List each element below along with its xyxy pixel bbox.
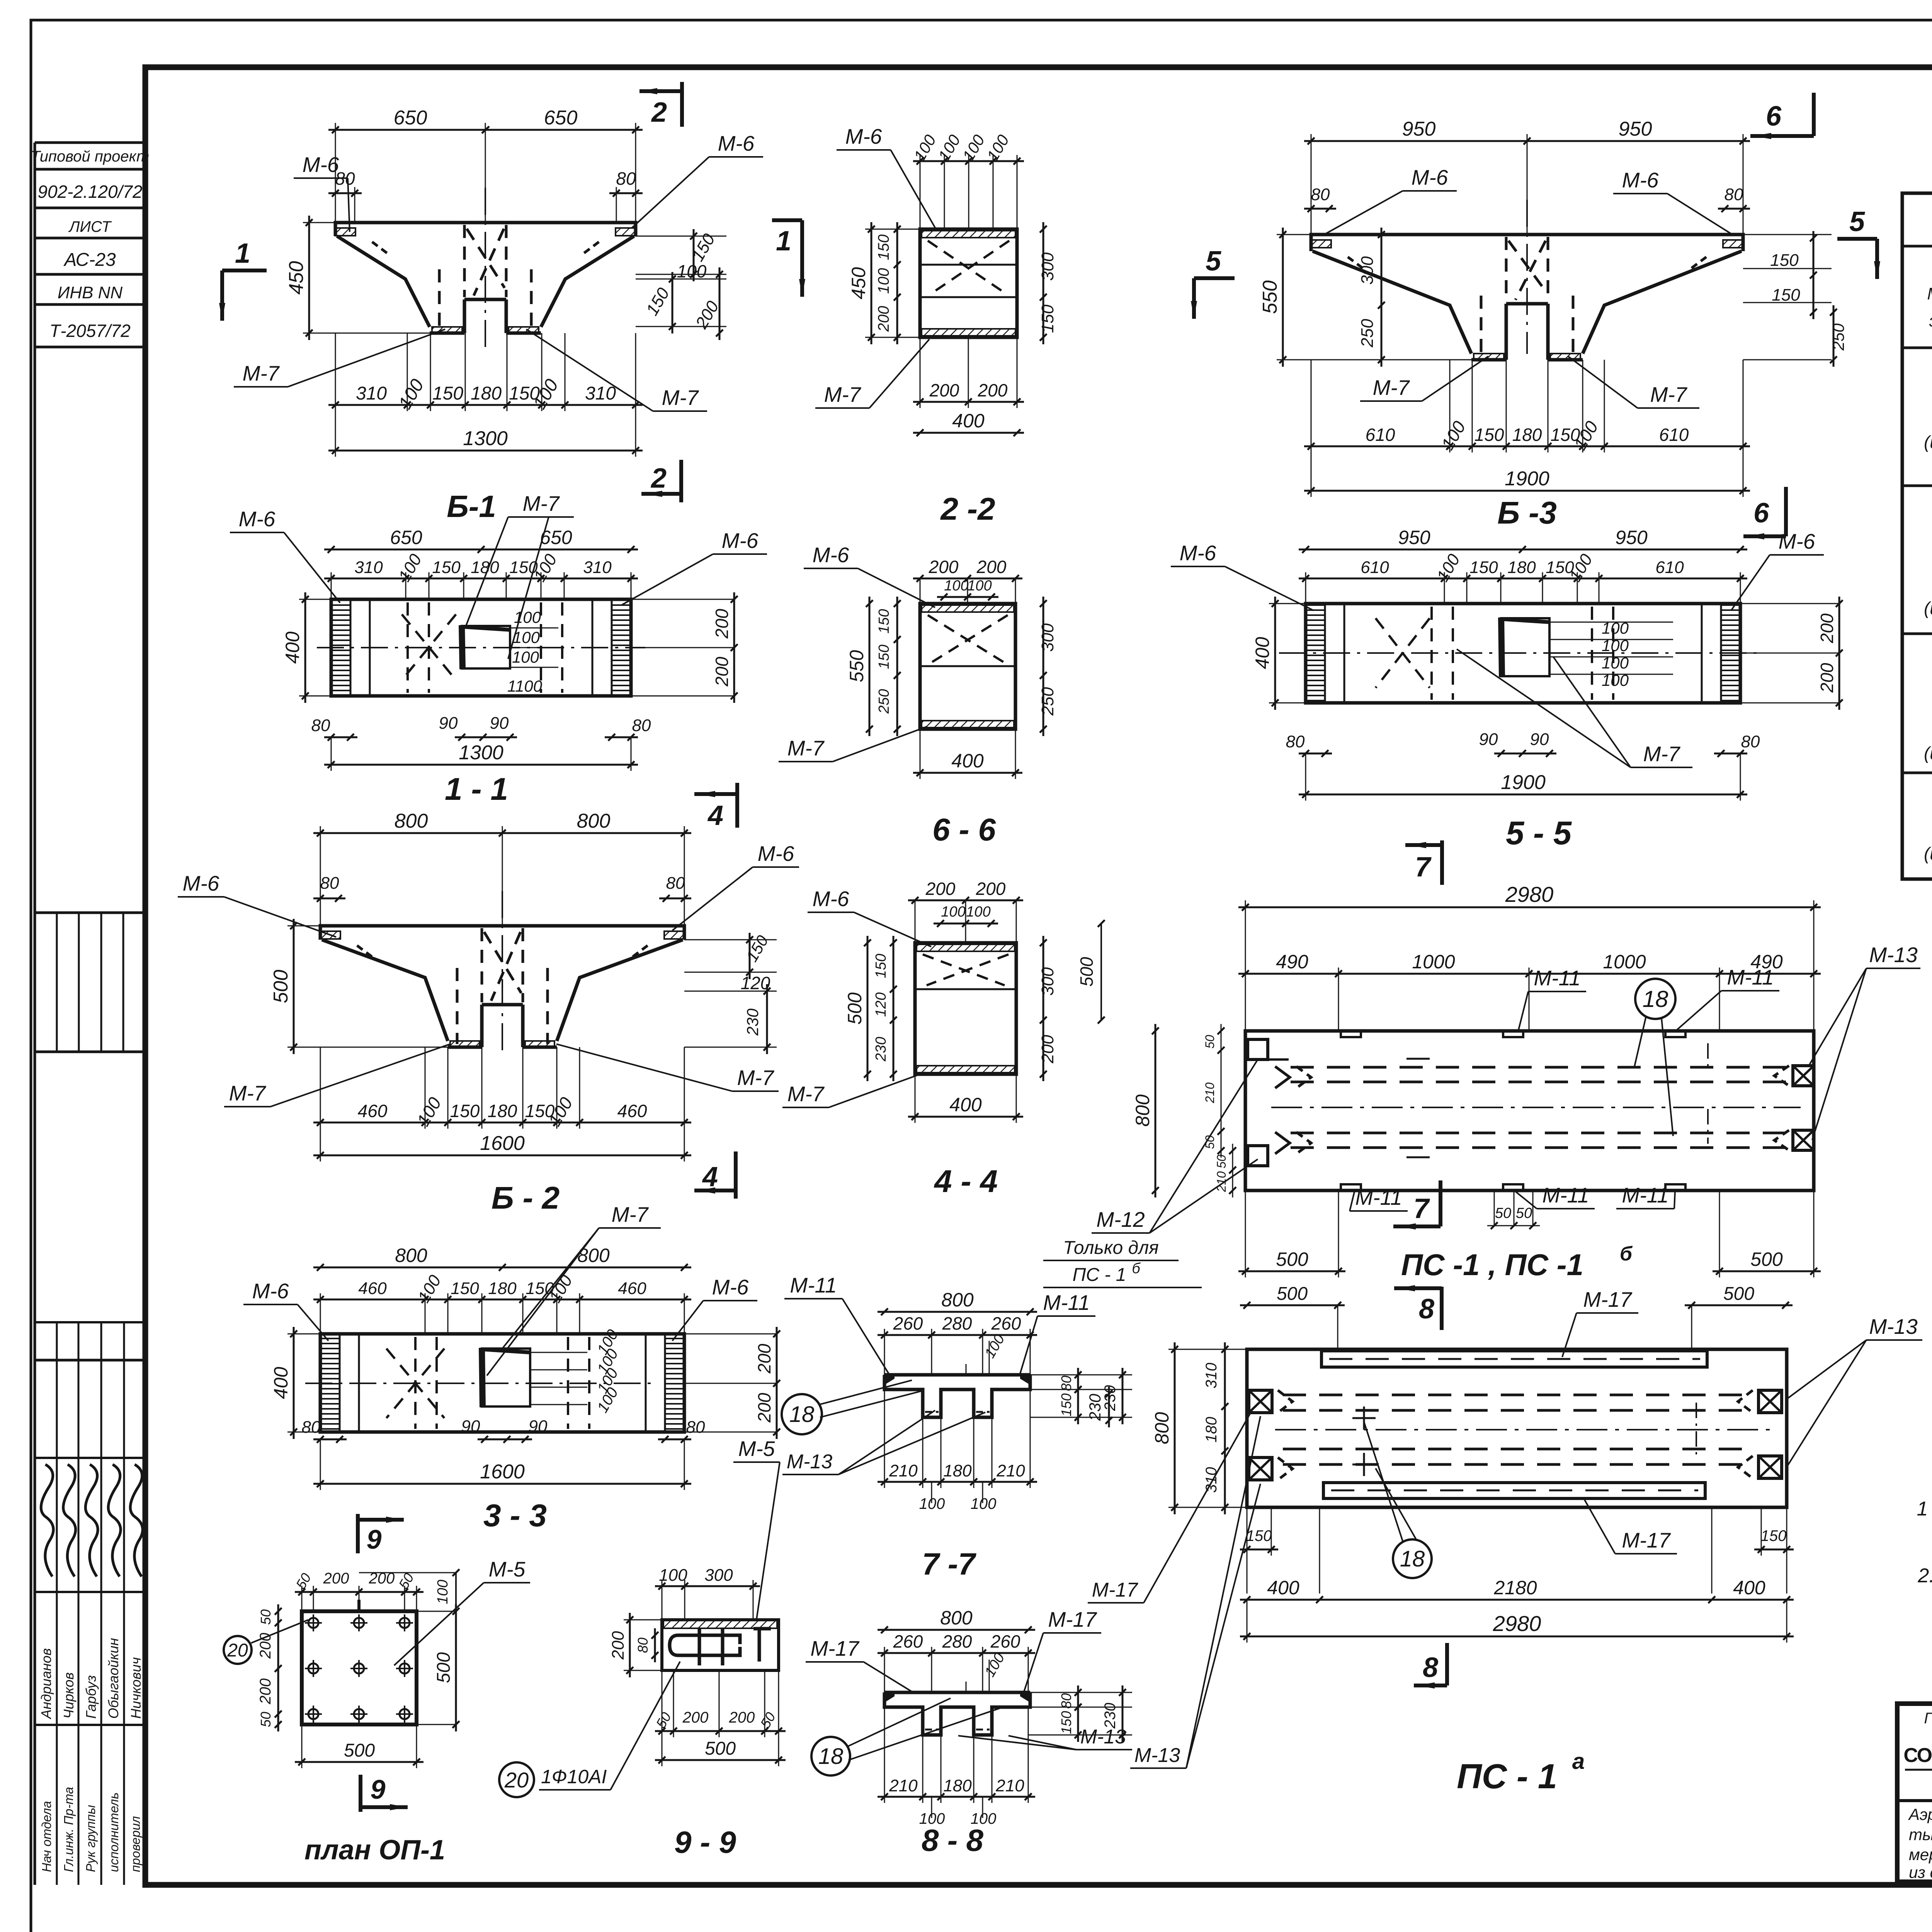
svg-text:80: 80 [302,1418,321,1437]
svg-text:Рук группы: Рук группы [83,1805,98,1872]
svg-text:М-13: М-13 [1134,1744,1180,1767]
svg-text:500: 500 [434,1652,454,1683]
svg-text:460: 460 [617,1101,647,1121]
svg-text:2 -2: 2 -2 [940,492,995,527]
svg-text:М-7: М-7 [787,1082,825,1106]
svg-text:АС-23: АС-23 [63,250,116,270]
svg-text:2.: 2. [1917,1565,1932,1587]
svg-text:М-6: М-6 [845,124,882,148]
svg-text:180: 180 [943,1461,972,1480]
svg-text:1 - 1: 1 - 1 [445,772,508,807]
svg-text:200: 200 [929,557,959,577]
svg-text:3 - 3: 3 - 3 [483,1498,547,1533]
svg-text:250: 250 [876,689,892,714]
svg-text:М-7: М-7 [612,1202,649,1226]
svg-text:2: 2 [651,97,667,128]
svg-text:200: 200 [729,1709,755,1726]
svg-text:100: 100 [1602,619,1629,637]
svg-text:а: а [1572,1749,1585,1774]
svg-text:120: 120 [741,973,770,993]
svg-text:М-11: М-11 [1727,965,1774,989]
svg-text:800: 800 [577,810,611,832]
svg-text:150: 150 [1469,558,1498,577]
svg-text:М-7: М-7 [523,492,560,515]
svg-text:100: 100 [944,578,968,594]
svg-text:400: 400 [1267,1577,1299,1599]
svg-text:610: 610 [1659,425,1689,445]
svg-text:18: 18 [1643,986,1668,1012]
svg-text:80: 80 [320,874,339,893]
svg-text:М-13: М-13 [1080,1726,1126,1748]
svg-text:260: 260 [893,1313,923,1333]
svg-text:500: 500 [1750,1248,1783,1270]
svg-text:М-11: М-11 [1542,1183,1589,1207]
svg-text:200: 200 [323,1570,349,1587]
svg-text:18: 18 [1400,1546,1425,1571]
svg-text:90: 90 [1530,730,1549,749]
svg-text:4 - 4: 4 - 4 [934,1164,998,1199]
svg-text:210: 210 [889,1461,918,1480]
svg-text:1600: 1600 [480,1461,525,1483]
svg-text:20: 20 [504,1768,529,1792]
svg-text:Только для: Только для [1063,1238,1159,1258]
svg-text:180: 180 [471,558,499,577]
svg-text:1: 1 [1917,1498,1928,1520]
svg-text:200: 200 [875,306,892,332]
svg-text:М-6: М-6 [1180,541,1216,565]
svg-text:902-2.120/72: 902-2.120/72 [37,182,142,202]
svg-text:М-17: М-17 [810,1636,860,1660]
svg-text:500: 500 [1723,1284,1754,1304]
svg-text:90: 90 [1479,730,1498,749]
svg-text:8: 8 [1423,1652,1438,1683]
svg-text:200: 200 [976,557,1007,577]
svg-text:400: 400 [1252,637,1273,669]
svg-text:180: 180 [471,383,502,404]
svg-text:800: 800 [1132,1094,1153,1127]
svg-text:эл-та: эл-та [1929,311,1932,330]
svg-text:650: 650 [390,527,422,548]
svg-text:1Ф10АІ: 1Ф10АІ [541,1766,607,1787]
svg-text:460: 460 [358,1101,388,1121]
svg-text:80: 80 [635,1638,651,1653]
svg-text:200: 200 [712,609,732,639]
svg-text:М-6: М-6 [813,543,849,567]
svg-text:500: 500 [705,1738,736,1759]
svg-text:Андрианов: Андрианов [38,1648,54,1719]
svg-text:М-7: М-7 [1373,376,1410,400]
svg-text:М-11: М-11 [1622,1183,1668,1207]
svg-text:210: 210 [996,1461,1025,1480]
svg-text:М-6: М-6 [1622,168,1659,192]
svg-text:Б-1: Б-1 [447,489,496,524]
svg-text:Обыгаойкин: Обыгаойкин [105,1638,121,1719]
svg-text:300: 300 [1038,252,1057,281]
svg-text:210: 210 [1214,1171,1228,1192]
svg-text:950: 950 [1398,527,1430,548]
svg-text:950: 950 [1615,527,1648,548]
svg-text:950: 950 [1402,118,1436,140]
svg-text:б: б [1132,1260,1141,1277]
svg-text:100: 100 [435,1580,451,1604]
svg-text:5 - 5: 5 - 5 [1506,815,1572,852]
svg-text:300: 300 [1038,967,1057,996]
svg-text:б: б [1620,1243,1633,1265]
svg-text:180: 180 [1507,558,1536,577]
svg-text:Т-2057/72: Т-2057/72 [49,321,131,341]
svg-text:1000: 1000 [1412,951,1455,973]
svg-text:Госстрой: Госстрой [1924,1710,1932,1727]
svg-text:150: 150 [1772,286,1800,304]
svg-text:80: 80 [1311,185,1330,204]
svg-text:7: 7 [1415,852,1432,883]
svg-text:150: 150 [873,954,889,978]
svg-text:(шт-1): (шт-1) [1924,598,1932,618]
svg-text:250: 250 [1829,323,1847,351]
svg-text:100: 100 [1602,671,1629,689]
svg-text:М-11: М-11 [1534,966,1580,990]
svg-text:(шт-1): (шт-1) [1924,743,1932,763]
svg-text:300: 300 [1358,256,1377,285]
svg-text:180: 180 [943,1776,972,1795]
svg-text:500: 500 [1077,957,1097,986]
svg-text:200: 200 [925,879,956,899]
svg-text:80: 80 [686,1418,705,1437]
svg-text:М-7: М-7 [787,736,825,760]
svg-text:250: 250 [1358,319,1377,348]
svg-text:300: 300 [704,1566,733,1585]
svg-text:М-6: М-6 [813,887,849,911]
svg-text:Марка: Марка [1927,284,1932,303]
svg-text:2980: 2980 [1493,1611,1541,1636]
svg-text:200: 200 [754,1344,774,1374]
svg-text:100: 100 [971,1495,997,1512]
svg-text:20: 20 [227,1640,248,1661]
svg-text:(шт-1): (шт-1) [1924,844,1932,864]
svg-text:150: 150 [1058,1393,1074,1417]
svg-text:450: 450 [285,261,308,295]
svg-text:М-12: М-12 [1096,1207,1145,1231]
svg-text:9: 9 [367,1524,382,1554]
svg-text:150: 150 [875,235,892,260]
svg-text:80: 80 [1058,1376,1074,1391]
svg-text:200: 200 [682,1709,709,1726]
svg-text:90: 90 [490,714,509,733]
svg-text:50: 50 [1516,1205,1532,1221]
svg-text:650: 650 [544,107,578,129]
svg-text:1000: 1000 [1603,951,1646,973]
svg-text:150: 150 [1038,304,1057,333]
svg-text:300: 300 [1038,623,1057,652]
svg-text:200: 200 [976,879,1006,899]
svg-text:Б - 2: Б - 2 [492,1180,560,1216]
svg-text:5: 5 [1849,206,1865,237]
svg-text:М-7: М-7 [662,386,699,410]
svg-text:200: 200 [1817,663,1837,693]
svg-text:М-11: М-11 [790,1273,837,1297]
svg-text:М-7: М-7 [824,383,862,406]
svg-text:180: 180 [1512,425,1542,445]
svg-text:М-6: М-6 [712,1275,749,1299]
svg-text:200: 200 [257,1679,274,1705]
svg-text:1300: 1300 [463,427,508,450]
svg-text:100: 100 [512,648,539,666]
svg-text:200: 200 [978,380,1008,400]
svg-text:ПС -1 , ПС -1: ПС -1 , ПС -1 [1401,1248,1583,1282]
svg-text:250: 250 [1038,687,1057,716]
svg-text:из сборного железобетона: из сборного железобетона [1909,1863,1932,1881]
svg-text:мерами коридора 9×5.2×120: мерами коридора 9×5.2×120 [1909,1845,1932,1864]
svg-text:500: 500 [1276,1248,1308,1270]
svg-text:1900: 1900 [1505,468,1549,490]
svg-text:1: 1 [235,238,250,269]
svg-text:150: 150 [1246,1527,1272,1544]
svg-text:150: 150 [876,609,892,633]
svg-text:150: 150 [432,558,461,577]
svg-text:8: 8 [1419,1294,1434,1325]
svg-text:80: 80 [1725,185,1743,204]
svg-text:210: 210 [889,1776,918,1795]
svg-text:550: 550 [1259,281,1281,314]
svg-text:80: 80 [632,716,651,735]
svg-text:ПС - 1: ПС - 1 [1457,1757,1557,1796]
svg-text:1900: 1900 [1501,771,1546,794]
svg-text:310: 310 [1203,1363,1220,1389]
svg-text:50: 50 [1203,1035,1217,1049]
svg-text:400: 400 [270,1367,292,1399]
svg-text:80: 80 [666,874,685,893]
svg-text:9 - 9: 9 - 9 [674,1825,736,1859]
svg-text:200: 200 [712,656,732,687]
svg-text:М-11: М-11 [1355,1185,1402,1209]
svg-text:260: 260 [893,1631,923,1651]
svg-text:400: 400 [951,750,984,772]
svg-text:150: 150 [1761,1527,1787,1544]
svg-text:М-13: М-13 [787,1451,833,1473]
svg-text:М-6: М-6 [758,842,794,866]
svg-text:800: 800 [1151,1412,1173,1444]
svg-text:М-6: М-6 [252,1279,289,1303]
svg-text:400: 400 [952,410,985,432]
svg-text:ИНВ NN: ИНВ NN [58,283,123,302]
svg-text:М-7: М-7 [229,1081,267,1105]
svg-text:100: 100 [677,261,707,281]
svg-text:50: 50 [258,1712,274,1727]
svg-text:400: 400 [282,631,303,664]
svg-text:Ничкович: Ничкович [128,1657,144,1719]
svg-text:650: 650 [394,107,427,129]
svg-text:280: 280 [942,1631,972,1651]
svg-text:Аэротенки- смесители че-: Аэротенки- смесители че- [1908,1805,1932,1823]
svg-text:Нач отдела: Нач отдела [39,1801,54,1872]
svg-text:610: 610 [1361,558,1389,577]
svg-text:7 -7: 7 -7 [922,1547,976,1581]
svg-text:500: 500 [270,970,292,1003]
svg-text:90: 90 [439,714,458,733]
svg-text:8 - 8: 8 - 8 [922,1823,984,1857]
svg-text:1100: 1100 [507,677,543,695]
svg-text:50: 50 [1214,1155,1228,1168]
svg-text:150: 150 [1058,1711,1074,1734]
svg-text:80: 80 [616,168,636,189]
svg-text:200: 200 [1817,613,1837,643]
svg-text:2: 2 [650,463,667,494]
svg-text:150: 150 [432,383,463,404]
svg-text:М-13: М-13 [1869,943,1918,967]
svg-text:СОЮЗВОДОКАНАЛПРОЕКТ: СОЮЗВОДОКАНАЛПРОЕКТ [1903,1744,1932,1767]
svg-text:100: 100 [1602,636,1629,655]
svg-text:Б -3: Б -3 [1497,495,1557,531]
svg-text:100: 100 [967,578,992,594]
svg-text:200: 200 [929,380,959,400]
svg-text:150: 150 [450,1101,480,1121]
svg-text:М-7: М-7 [243,361,280,385]
svg-text:200: 200 [1038,1035,1057,1064]
svg-text:230: 230 [1102,1385,1119,1412]
svg-text:9: 9 [371,1774,386,1804]
svg-text:М-17: М-17 [1622,1528,1671,1552]
svg-text:150: 150 [1475,425,1504,445]
svg-text:800: 800 [940,1607,973,1629]
svg-text:1600: 1600 [480,1132,525,1155]
svg-text:50: 50 [1495,1205,1511,1221]
svg-text:210: 210 [1203,1082,1217,1104]
svg-text:210: 210 [995,1776,1024,1795]
svg-text:50: 50 [258,1609,274,1625]
svg-text:М-13: М-13 [1869,1315,1918,1338]
svg-text:М-6: М-6 [718,131,755,155]
svg-text:500: 500 [844,992,866,1025]
svg-text:180: 180 [488,1279,517,1298]
svg-text:18: 18 [818,1744,844,1769]
svg-text:200: 200 [754,1393,774,1423]
svg-text:310: 310 [585,383,616,404]
svg-text:310: 310 [354,558,383,577]
svg-text:ЛИСТ: ЛИСТ [68,218,112,235]
svg-text:230: 230 [1102,1703,1119,1729]
svg-text:М-6: М-6 [1779,529,1815,553]
svg-text:4: 4 [702,1162,718,1192]
svg-text:100: 100 [875,268,892,294]
svg-text:М-17: М-17 [1583,1287,1633,1311]
svg-text:150: 150 [876,645,892,669]
svg-text:180: 180 [1203,1417,1220,1443]
svg-text:план ОП-1: план ОП-1 [304,1835,445,1866]
svg-text:550: 550 [846,650,867,682]
svg-text:М-17: М-17 [1048,1607,1097,1631]
svg-text:610: 610 [1655,558,1684,577]
svg-text:(шт-1): (шт-1) [1924,432,1932,452]
svg-text:100: 100 [966,904,990,920]
svg-text:310: 310 [356,383,387,404]
svg-text:80: 80 [1741,732,1760,751]
svg-text:610: 610 [1366,425,1395,445]
svg-text:М-6: М-6 [183,871,219,895]
svg-text:260: 260 [990,1631,1020,1651]
svg-text:6: 6 [1766,101,1782,132]
svg-text:4: 4 [707,800,723,831]
svg-text:800: 800 [395,1245,427,1266]
svg-text:проверил: проверил [128,1816,143,1872]
svg-text:80: 80 [1058,1693,1074,1709]
svg-text:М-11: М-11 [1043,1291,1090,1315]
svg-text:М-17: М-17 [1092,1579,1139,1601]
svg-text:исполнитель: исполнитель [107,1793,121,1872]
svg-text:460: 460 [618,1279,646,1298]
svg-text:М-6: М-6 [239,507,276,531]
svg-text:950: 950 [1619,118,1652,140]
svg-text:230: 230 [743,1008,762,1036]
svg-text:500: 500 [1277,1284,1308,1304]
svg-text:80: 80 [1286,732,1305,751]
svg-text:М-5: М-5 [738,1437,775,1461]
svg-text:Типовой проект: Типовой проект [31,148,150,165]
svg-text:230: 230 [873,1037,889,1061]
svg-text:400: 400 [1733,1577,1765,1599]
svg-text:М-6: М-6 [303,153,339,177]
svg-text:90: 90 [529,1417,548,1436]
svg-text:18: 18 [789,1402,815,1427]
svg-text:тырехкоридорные с раз-: тырехкоридорные с раз- [1909,1825,1932,1844]
svg-text:Гл.инж. Пр-та: Гл.инж. Пр-та [61,1787,76,1872]
svg-text:120: 120 [873,992,889,1017]
svg-text:7: 7 [1413,1193,1430,1224]
svg-text:2180: 2180 [1493,1577,1537,1599]
svg-text:100: 100 [659,1566,687,1585]
svg-text:400: 400 [949,1094,982,1116]
svg-text:М-6: М-6 [722,529,759,553]
svg-text:1: 1 [776,226,791,257]
svg-text:490: 490 [1276,951,1308,973]
svg-text:450: 450 [848,267,869,299]
svg-text:100: 100 [941,904,965,920]
svg-text:2980: 2980 [1505,882,1554,906]
svg-text:М-7: М-7 [1643,742,1681,766]
svg-text:6 - 6: 6 - 6 [932,812,996,847]
svg-text:800: 800 [941,1289,974,1311]
svg-text:150: 150 [451,1279,479,1298]
svg-text:М-6: М-6 [1412,165,1448,189]
svg-text:М-7: М-7 [1650,383,1688,406]
svg-text:1300: 1300 [459,742,503,764]
svg-text:150: 150 [1770,251,1799,270]
svg-text:6: 6 [1753,498,1769,529]
svg-text:460: 460 [358,1279,387,1298]
svg-text:180: 180 [488,1101,517,1121]
svg-text:Гарбуз: Гарбуз [83,1675,99,1719]
svg-text:500: 500 [344,1740,375,1761]
svg-text:200: 200 [609,1631,628,1660]
svg-text:100: 100 [1602,654,1629,672]
svg-text:ПС - 1: ПС - 1 [1073,1265,1126,1285]
svg-text:М-7: М-7 [737,1066,775,1090]
svg-text:280: 280 [942,1313,972,1333]
svg-text:Чирков: Чирков [61,1672,77,1719]
svg-text:310: 310 [583,558,612,577]
svg-text:260: 260 [991,1313,1021,1333]
svg-text:90: 90 [461,1417,480,1436]
svg-text:5: 5 [1206,246,1221,277]
svg-text:800: 800 [395,810,428,832]
svg-text:М-5: М-5 [489,1557,526,1581]
svg-text:80: 80 [311,716,330,735]
